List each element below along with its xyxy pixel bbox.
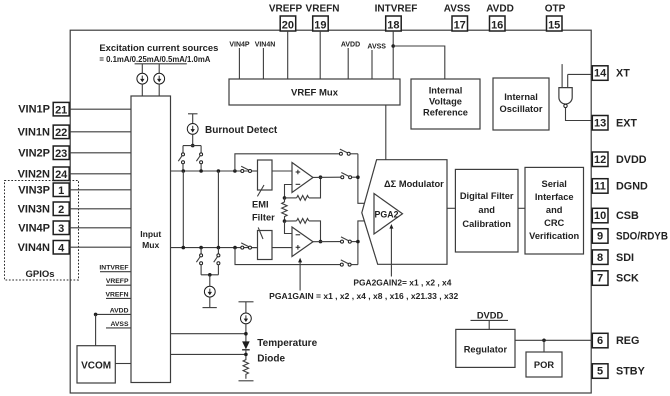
node top bus D (233, 169, 237, 173)
wire pin20 to VREF Mux (287, 31, 289, 79)
Regulator (456, 329, 515, 367)
diode D1 (242, 341, 250, 356)
wire VIN4N (262, 48, 264, 79)
svg-text:2: 2 (58, 204, 64, 216)
svg-text:INTVREF: INTVREF (99, 265, 128, 272)
node A1 feedback (283, 196, 287, 200)
wire node to POR (543, 340, 545, 352)
svg-text:STBY: STBY (616, 366, 646, 378)
svg-text:ΔΣ Modulator: ΔΣ Modulator (384, 179, 444, 189)
wire vertical link left (182, 171, 184, 248)
switch burnout right (196, 146, 202, 171)
label EMI Filter (252, 185, 275, 239)
pin 18 INTVREF (375, 4, 418, 32)
wire PGA2 lower input (358, 221, 374, 265)
pin 2 VIN3N (18, 202, 70, 216)
wire bottom bus (171, 247, 258, 249)
switch row1 (339, 149, 358, 155)
svg-text:VREFP: VREFP (269, 4, 303, 15)
svg-text:CSB: CSB (616, 210, 639, 222)
switch row4 (340, 260, 358, 266)
net INTVREF to mux (99, 265, 131, 272)
pin 6 REG (592, 333, 639, 348)
wire A2 inverting input (285, 221, 293, 233)
svg-text:11: 11 (594, 181, 606, 193)
svg-text:OTP: OTP (545, 4, 566, 15)
arrow PGA1 gain (269, 258, 458, 301)
svg-text:15: 15 (548, 19, 560, 31)
svg-text:VIN4P: VIN4P (18, 222, 50, 234)
svg-text:SCK: SCK (616, 273, 639, 285)
svg-text:8: 8 (597, 252, 603, 264)
chip outline (70, 30, 591, 393)
pin 4 VIN4N (18, 241, 70, 255)
pin 22 VIN1N (18, 125, 70, 139)
svg-text:1: 1 (58, 185, 64, 197)
svg-text:Reference: Reference (423, 108, 468, 118)
pin 8 SDI (592, 250, 634, 265)
node regulator POR (542, 339, 546, 343)
pin 11 DGND (592, 179, 648, 194)
svg-text:AVSS: AVSS (367, 44, 386, 51)
wire AVDD (347, 48, 349, 79)
node diode top (244, 332, 248, 336)
svg-text:VIN1N: VIN1N (18, 126, 50, 138)
Digital Filter and Calibration (455, 169, 518, 252)
oscillator gate U1 (559, 64, 572, 108)
pin 16 AVDD (486, 4, 514, 32)
svg-text:21: 21 (55, 104, 67, 116)
svg-text:AVSS: AVSS (110, 321, 128, 328)
svg-text:Internal: Internal (429, 86, 463, 96)
svg-text:Temperature: Temperature (257, 338, 317, 349)
EMI filter box 2 (258, 231, 273, 260)
node bottom bus C (217, 246, 221, 250)
wire burnout bar (183, 145, 201, 147)
svg-text:9: 9 (597, 231, 603, 243)
switch burnout left (178, 146, 184, 171)
pin 17 AVSS (444, 4, 471, 32)
wire top bus (171, 170, 258, 172)
svg-text:VIN2N: VIN2N (18, 168, 50, 180)
svg-text:24: 24 (55, 169, 68, 181)
svg-text:7: 7 (597, 273, 603, 285)
pin 24 VIN2N (18, 167, 70, 181)
node top bus C (217, 169, 221, 173)
switch bias left (196, 248, 202, 275)
temperature diode branch supply bar (239, 301, 254, 303)
wire VCOM to mux (115, 363, 131, 365)
wire gate to pin13 (566, 108, 593, 121)
node diode bottom (244, 353, 248, 357)
pin 15 OTP (545, 4, 566, 32)
net AVDD to mux (94, 307, 131, 316)
svg-text:VCOM: VCOM (81, 360, 111, 371)
resistor A1 feedback (285, 177, 321, 200)
op-amp A2 (292, 227, 313, 257)
svg-text:Burnout Detect: Burnout Detect (205, 125, 278, 136)
wire excitation bar (135, 63, 187, 65)
svg-text:Verification: Verification (529, 231, 579, 241)
resistor temperature (243, 357, 248, 379)
svg-text:16: 16 (491, 19, 503, 31)
svg-text:3: 3 (58, 223, 64, 235)
svg-text:22: 22 (55, 127, 67, 139)
pin 13 EXT (592, 116, 637, 131)
svg-text:VREF Mux: VREF Mux (291, 88, 339, 99)
switch row2 (341, 173, 358, 179)
node bias merge (208, 273, 212, 277)
svg-text:Regulator: Regulator (464, 345, 508, 355)
svg-text:Oscillator: Oscillator (500, 104, 543, 114)
wire pin23 (69, 152, 131, 154)
svg-text:PGA1GAIN = x1 , x2 , x4 , x8 ,: PGA1GAIN = x1 , x2 , x4 , x8 , x16 , x21… (269, 291, 458, 301)
op-amp PGA2 (374, 194, 403, 235)
svg-text:POR: POR (534, 360, 554, 370)
wire PGA2 upper input (358, 154, 374, 204)
wire bypass bottom (235, 248, 340, 265)
wire pin3 (69, 227, 131, 229)
svg-text:VREFP: VREFP (106, 278, 129, 285)
wire INTVREF to Internal Voltage Reference (393, 46, 445, 79)
svg-text:23: 23 (55, 148, 67, 160)
wire mux to diode node (171, 333, 246, 335)
node row2 join (356, 175, 360, 179)
pin 19 VREFN (306, 4, 340, 32)
burnout detect current source (187, 114, 278, 146)
node bottom bus B (199, 246, 203, 250)
svg-text:Mux: Mux (142, 240, 159, 250)
wire pin1 (69, 189, 131, 191)
node burnout junction (191, 144, 195, 148)
svg-text:10: 10 (594, 210, 606, 222)
wire bias merge bar (201, 274, 218, 276)
svg-text:VIN4P: VIN4P (229, 42, 250, 49)
svg-text:SDI: SDI (616, 252, 634, 264)
svg-text:and: and (546, 205, 563, 215)
svg-text:XT: XT (616, 68, 630, 80)
wire regulator to pin6 (515, 339, 592, 341)
pin 21 VIN1P (18, 102, 69, 116)
node bottom bus A (182, 246, 186, 250)
pin 1 VIN3P (18, 183, 69, 197)
wire mux to diode bottom node (171, 353, 246, 355)
svg-text:Diode: Diode (257, 354, 285, 365)
svg-text:5: 5 (597, 366, 603, 378)
label DVDD over regulator (471, 310, 509, 329)
node A2 output (319, 240, 323, 244)
svg-text:Internal: Internal (504, 92, 538, 102)
svg-text:18: 18 (387, 19, 399, 31)
svg-text:Serial: Serial (542, 179, 567, 189)
svg-text:DVDD: DVDD (477, 310, 504, 320)
svg-text:VIN2P: VIN2P (18, 147, 50, 159)
Input Mux (131, 96, 171, 383)
svg-text:4: 4 (58, 242, 65, 254)
Serial Interface and CRC Verification (525, 167, 584, 254)
node bottom bus D (233, 246, 237, 250)
svg-text:Excitation current sources: Excitation current sources (99, 43, 218, 53)
pin 14 XT (592, 66, 630, 81)
net AVSS to mux (106, 321, 131, 328)
svg-text:Calibration: Calibration (462, 219, 511, 229)
switch row3 (341, 237, 358, 243)
svg-text:AVDD: AVDD (110, 307, 129, 314)
svg-text:17: 17 (454, 19, 466, 31)
svg-text:= 0.1mA/0.25mA/0.5mA/1.0mA: = 0.1mA/0.25mA/0.5mA/1.0mA (99, 54, 210, 64)
svg-text:EXT: EXT (616, 117, 637, 129)
pin 9 SDO/RDYB (592, 229, 668, 244)
svg-text:Filter: Filter (252, 213, 275, 223)
node top bus A (182, 169, 186, 173)
resistor gain middle (282, 198, 287, 221)
pin 10 CSB (592, 208, 639, 223)
svg-text:GPIOs: GPIOs (25, 269, 54, 280)
delta-sigma modulator block (362, 160, 447, 265)
POR (526, 352, 562, 377)
node top bus B (199, 169, 203, 173)
current source I2 (154, 64, 165, 96)
wire vertical link right (217, 171, 219, 248)
net VREFP to mux (106, 278, 131, 285)
svg-text:SDO/RDYB: SDO/RDYB (616, 231, 668, 243)
VCOM (77, 346, 115, 383)
current source bias (204, 275, 215, 308)
wire A1 inverting input (285, 185, 293, 198)
svg-text:PGA2: PGA2 (375, 210, 399, 220)
pin 3 VIN4P (18, 221, 69, 235)
node A2 feedback (283, 219, 287, 223)
svg-text:VREFN: VREFN (306, 4, 340, 15)
svg-text:VIN4N: VIN4N (18, 242, 50, 254)
label temperature diode (257, 338, 317, 365)
svg-text:Digital Filter: Digital Filter (460, 191, 514, 201)
svg-text:DGND: DGND (616, 181, 648, 193)
net VREFN to mux (105, 291, 131, 298)
ground temperature bar (239, 380, 254, 382)
Internal Oscillator (493, 78, 549, 130)
op-amp A1 (292, 163, 313, 193)
svg-text:Voltage: Voltage (429, 97, 462, 107)
wire bypass top (235, 154, 340, 171)
node INTVREF junction (391, 44, 395, 48)
wire A2 output (313, 241, 341, 243)
wire filter to serial (518, 207, 525, 209)
svg-text:PGA2GAIN2= x1 , x2 , x4: PGA2GAIN2= x1 , x2 , x4 (353, 278, 451, 288)
svg-text:VIN3N: VIN3N (18, 203, 50, 215)
pin 12 DVDD (592, 152, 646, 167)
wire gate to pin14 (568, 73, 593, 75)
svg-text:20: 20 (282, 19, 294, 31)
arrow PGA2 gain (353, 224, 451, 288)
wire pin22 (69, 131, 131, 133)
svg-text:19: 19 (314, 19, 326, 31)
svg-text:AVDD: AVDD (486, 4, 514, 15)
wire VCOM to AVDD net (95, 314, 97, 345)
svg-text:AVDD: AVDD (341, 42, 360, 49)
pin 20 VREFP (269, 4, 303, 32)
svg-text:VIN1P: VIN1P (18, 104, 50, 116)
svg-text:VIN3P: VIN3P (18, 184, 50, 196)
wire pin2 (69, 208, 131, 210)
wire pin19 to VREF Mux (319, 31, 321, 79)
svg-text:AVSS: AVSS (444, 4, 471, 15)
switch bottom bus (241, 243, 258, 249)
pin 23 VIN2P (18, 146, 69, 160)
wire A1 output (313, 176, 341, 178)
current source I1 (137, 64, 148, 96)
pin 5 STBY (592, 364, 645, 379)
switch top bus (241, 166, 258, 172)
wire AVSS (371, 50, 373, 79)
ground bias bar (203, 307, 217, 309)
wire pin21 (69, 108, 131, 110)
svg-text:EMI: EMI (252, 200, 269, 210)
resistor A2 feedback (285, 219, 321, 242)
node A1 output (319, 175, 323, 179)
node row3 join (356, 240, 360, 244)
VREF Mux (229, 79, 400, 105)
EMI filter box 1 (258, 160, 273, 190)
svg-text:CRC: CRC (544, 218, 564, 228)
Internal Voltage Reference (411, 79, 480, 129)
svg-text:Input: Input (140, 229, 161, 239)
wire VREF Mux to modulator (385, 105, 387, 160)
svg-text:14: 14 (594, 68, 607, 80)
GPIOs dashed box (5, 181, 79, 281)
svg-text:VREFN: VREFN (105, 291, 128, 298)
wire modulator output (447, 207, 455, 209)
svg-text:13: 13 (594, 117, 606, 129)
wire pin24 (69, 173, 131, 175)
switch bias right (214, 248, 220, 275)
wire pin18 to VREF Mux (392, 31, 394, 79)
svg-text:12: 12 (594, 154, 606, 166)
wire pin4 (69, 246, 131, 248)
svg-text:6: 6 (597, 335, 603, 347)
wire VIN4P (238, 48, 240, 79)
svg-text:VIN4N: VIN4N (255, 42, 276, 49)
svg-text:and: and (478, 205, 495, 215)
svg-text:REG: REG (616, 335, 639, 347)
svg-text:Interface: Interface (535, 192, 574, 202)
svg-text:DVDD: DVDD (616, 154, 647, 166)
pin 7 SCK (592, 271, 639, 286)
current source temperature (241, 302, 252, 342)
svg-text:INTVREF: INTVREF (375, 4, 418, 15)
